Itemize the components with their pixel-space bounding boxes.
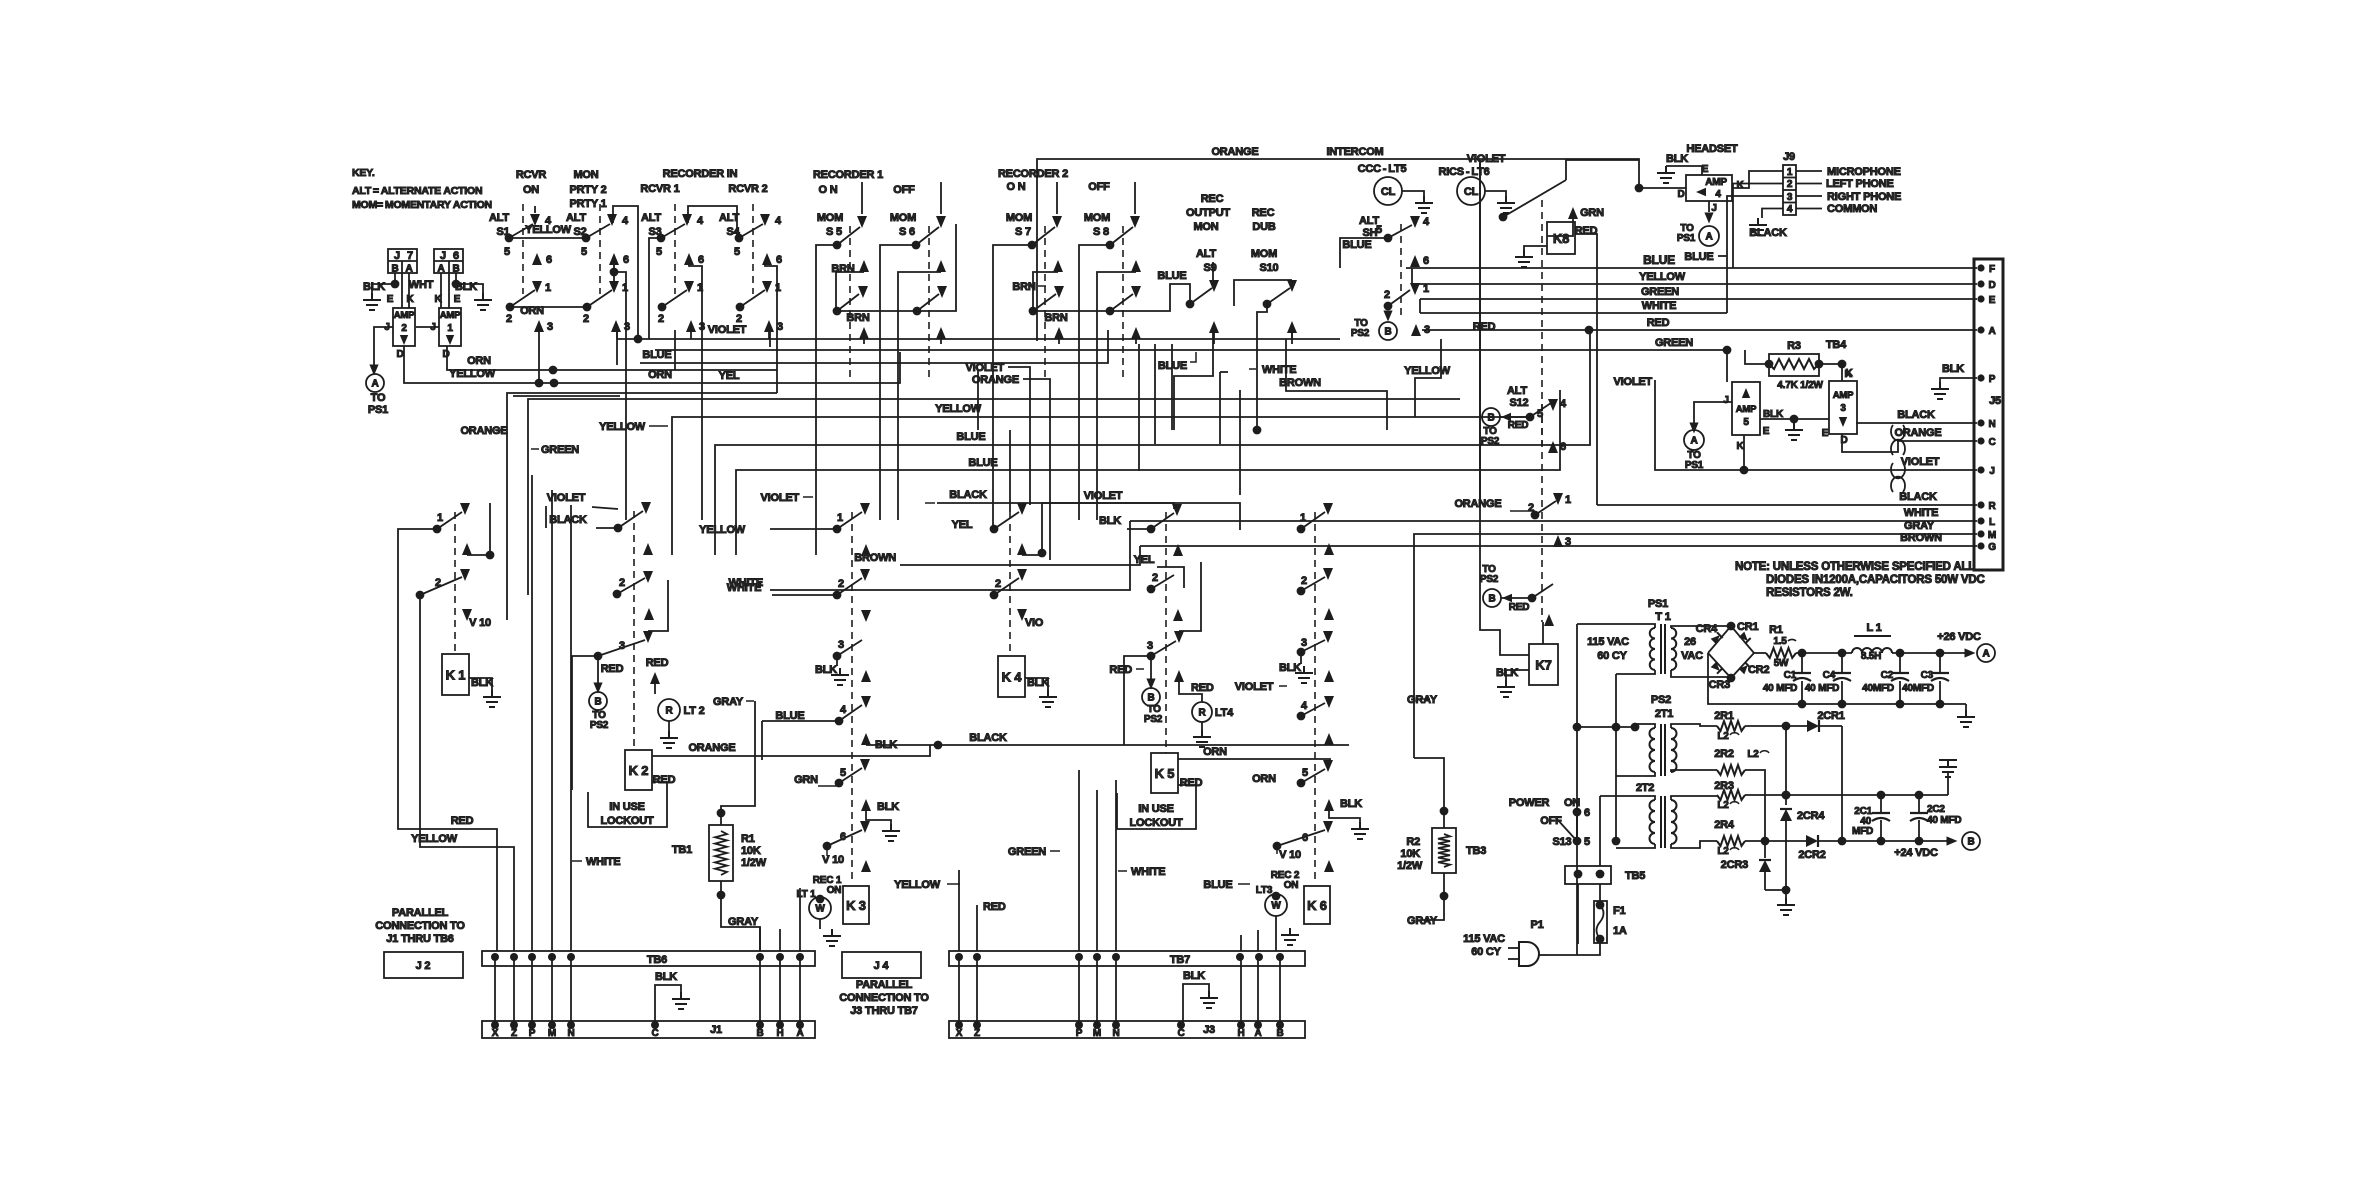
wire S10 arrow stem [1291,333,1293,339]
lamp LT2 [646,657,705,748]
bank K4 contact 2 [990,569,1027,599]
power switch S13 [1509,797,1590,848]
svg-text:RED: RED [1109,664,1132,676]
svg-text:1A: 1A [1613,925,1627,937]
svg-text:8.5H: 8.5H [1861,651,1881,662]
svg-text:F: F [1989,264,1995,275]
svg-text:BRN: BRN [846,312,869,324]
svg-text:S12: S12 [1510,397,1529,409]
header REC OUTPUT MON / REC DUB [1186,193,1276,233]
svg-text:TB4: TB4 [1826,339,1847,351]
svg-text:B: B [1384,327,1391,338]
svg-text:B: B [1488,594,1495,605]
stem S1 [534,206,536,213]
lamp LT3 and relay K6 [1256,870,1330,945]
bank K3 blk gnd [861,799,900,841]
svg-text:A: A [796,1028,803,1039]
switch S3 [641,204,705,333]
switch S1 [489,204,553,333]
svg-text:R: R [665,706,673,717]
svg-text:C4: C4 [1823,670,1836,681]
svg-text:MOM: MOM [1084,212,1110,224]
svg-text:MICROPHONE: MICROPHONE [1827,166,1901,178]
svg-text:AMP: AMP [1736,404,1757,415]
svg-text:R1: R1 [741,833,755,845]
bus wire violet tag [760,430,816,555]
capacitor C2 [1862,649,1909,704]
svg-text:BROWN: BROWN [854,552,896,564]
svg-text:PS1: PS1 [1677,233,1696,244]
svg-text:M: M [548,1028,556,1039]
capacitor 2C1 [1852,795,1890,841]
bank K5 arrow b [1173,609,1183,621]
svg-text:3: 3 [1787,192,1793,203]
svg-text:40 MFD: 40 MFD [1805,683,1839,694]
svg-text:2: 2 [401,323,407,334]
parallel connection text left [375,907,465,945]
svg-text:ORANGE: ORANGE [688,742,735,754]
svg-text:VIOLET: VIOLET [760,492,799,504]
wire K7 to orange loop [1480,160,1529,655]
svg-text:RED: RED [646,657,669,669]
wire violet bus [617,324,1340,343]
svg-text:ALT: ALT [641,212,661,224]
wire AMP1 D orn [447,346,777,374]
svg-text:RED: RED [1647,317,1670,329]
bank K3 arrow e [861,860,871,872]
svg-text:3: 3 [777,321,783,333]
svg-text:RED: RED [983,901,1006,913]
wire black to J5-R [1597,491,1977,505]
svg-text:J5: J5 [1989,395,2001,407]
svg-text:N: N [567,1028,574,1039]
svg-text:CR3: CR3 [1709,679,1730,691]
svg-text:ALT: ALT [566,212,586,224]
svg-text:N: N [1112,1028,1119,1039]
note text [1735,561,1985,599]
svg-text:BLK: BLK [1183,970,1205,982]
bank K2 arrow mid [644,608,654,620]
svg-text:B: B [391,264,398,275]
svg-text:RICS - LT6: RICS - LT6 [1438,166,1489,178]
wire brn S7-S8 [1033,310,1110,312]
bank K3 arrow a [861,544,871,556]
resistor R2 10K [1397,807,1486,901]
bridge diodes [1696,621,1770,691]
svg-text:REC: REC [1201,193,1224,205]
switch S 6 [890,212,946,382]
relay K1 [442,654,501,707]
svg-text:BLK: BLK [655,971,677,983]
wire orn S1-S2 [510,305,587,317]
transformer T1 [1640,624,1731,677]
diode 2CR4 [1780,726,1825,890]
wire S3 arrow6 drop [689,263,702,520]
svg-text:YELLOW: YELLOW [1639,271,1686,283]
svg-text:+26 VDC: +26 VDC [1937,631,1981,643]
svg-text:RED: RED [601,663,624,675]
svg-text:BLACK: BLACK [1749,227,1787,239]
svg-text:2CR4: 2CR4 [1797,810,1825,822]
svg-text:K: K [1736,180,1744,191]
svg-text:BLUE: BLUE [1684,251,1713,263]
wire AMP1 J [416,326,439,328]
svg-text:AMP: AMP [1833,390,1854,401]
svg-text:RED: RED [1508,420,1529,431]
svg-text:REC: REC [1252,207,1275,219]
svg-text:GRN: GRN [1580,207,1604,219]
wire bus 350 green [655,349,1727,351]
svg-text:B: B [594,697,601,708]
relay K5 [1151,753,1203,793]
wire yellow feeder left [411,595,514,951]
resistor R1 1.5 5W [1754,624,1852,669]
J9 pin4 wire to ground [1749,209,1787,240]
svg-text:PARALLEL: PARALLEL [392,907,449,919]
bank K6 contact 6 [1273,821,1333,861]
power supply PS1 T1 labels [1648,598,1671,623]
svg-text:GREEN: GREEN [1655,337,1693,349]
inductor L1 8.5H [1852,622,1892,662]
wire T1 primary top [1577,623,1640,625]
wire +24VDC to terminal B [1894,832,1980,859]
svg-text:GRAY: GRAY [728,916,759,928]
resistor R3 4.7K [1745,339,1852,391]
wire sources jsfeed [1340,238,1420,313]
label VIOLET left bank [546,492,618,528]
svg-text:VIOLET: VIOLET [1235,681,1274,693]
svg-text:3: 3 [619,640,625,652]
svg-text:K 3: K 3 [846,898,866,913]
bank K5 dashed [1165,512,1167,753]
svg-text:R: R [1198,708,1206,719]
bank K3 arrows c [861,670,871,708]
svg-text:2T2: 2T2 [1636,782,1654,794]
bank K4 VIO arrow [1017,609,1044,629]
svg-text:RECORDER IN: RECORDER IN [663,168,738,180]
bank K5 contact 1 [1147,504,1182,533]
left bank verticals to TB6 [532,475,571,951]
svg-text:B: B [1487,413,1494,424]
resistor 2R4 [1714,819,1769,857]
svg-text:H: H [1237,1028,1244,1039]
svg-text:ALT: ALT [1507,385,1527,397]
svg-text:A: A [1705,232,1712,243]
svg-text:1/2W: 1/2W [1397,860,1423,872]
svg-text:1: 1 [545,282,551,294]
svg-text:L2: L2 [1717,731,1729,742]
bus wire j [729,521,1130,590]
svg-text:J1 THRU TB6: J1 THRU TB6 [386,933,454,945]
connector J1 [482,1021,815,1039]
svg-text:5: 5 [1743,417,1749,428]
amplifier AMP 3 [1822,364,1857,446]
svg-text:VIOLET: VIOLET [1901,456,1940,468]
bank K3 contact 4 [762,704,862,760]
wire S3 arrow3 stem [690,332,692,339]
svg-text:WHITE: WHITE [1131,866,1165,878]
svg-text:PS2: PS2 [1144,714,1163,725]
svg-text:K7: K7 [1535,658,1551,673]
terminal block TB5 [1565,841,1645,944]
svg-text:L2: L2 [1747,749,1759,760]
svg-text:CCC - LT5: CCC - LT5 [1358,163,1407,175]
wire brown mid [1279,339,1387,430]
relay K8 [1515,222,1598,505]
bank K2 contact 2 [613,577,645,598]
svg-text:YELLOW: YELLOW [894,879,941,891]
bus wire yellow1 [599,339,1529,555]
svg-text:3: 3 [624,321,630,333]
svg-text:1: 1 [1300,512,1306,524]
header MON PRTY [569,169,606,210]
svg-text:BLUE: BLUE [1203,879,1232,891]
svg-text:C2: C2 [1881,670,1894,681]
bank K6 contact 5 [1252,760,1333,787]
relay K2 [625,750,676,790]
svg-text:TB6: TB6 [647,954,667,966]
svg-text:PS1: PS1 [368,404,388,416]
wire S2 top hook [613,206,638,339]
switch S5 pole2 [831,260,869,324]
svg-text:BLACK: BLACK [969,732,1007,744]
label ORN wire [467,355,672,381]
diode 2CR2 [1765,835,1948,861]
svg-text:YELLOW: YELLOW [599,421,646,433]
svg-text:PRTY 1: PRTY 1 [569,198,606,210]
svg-text:ORANGE: ORANGE [1894,427,1941,439]
svg-text:MON: MON [573,169,598,181]
svg-text:ON: ON [523,184,539,196]
svg-text:A: A [1690,436,1697,447]
svg-text:ORN: ORN [467,355,491,367]
svg-text:M: M [1988,530,1996,541]
bank K3 contact 1 [833,503,870,533]
bank K6 arrows c [1324,670,1334,708]
svg-text:1: 1 [622,282,628,294]
wire S3 dot5 feed [649,238,661,339]
svg-text:LT3: LT3 [1256,885,1273,896]
svg-text:R3: R3 [1787,340,1801,352]
svg-text:BLK: BLK [1666,153,1688,165]
svg-text:RCVR 1: RCVR 1 [640,183,679,195]
svg-text:F1: F1 [1613,905,1626,917]
svg-text:E: E [1763,426,1770,437]
label BLACK left bank [549,514,618,528]
svg-text:BLK: BLK [877,801,899,813]
svg-text:OFF: OFF [1088,181,1110,193]
bank K5 arrow a [1134,544,1184,588]
svg-text:7: 7 [407,250,413,262]
svg-text:GRAY: GRAY [1407,915,1438,927]
svg-text:CL: CL [1381,186,1396,198]
svg-text:C: C [651,1028,658,1039]
svg-text:WHT: WHT [409,279,434,291]
svg-text:WHITE: WHITE [1642,300,1676,312]
svg-text:YELLOW: YELLOW [935,403,982,415]
wire node to AMP4 D [1639,187,1686,189]
header RCVR ON [516,169,547,196]
J9 pin2 wire [1733,184,1783,269]
svg-text:E: E [454,294,461,305]
svg-text:D: D [1677,189,1684,200]
amplifier AMP 2 [384,308,415,360]
wire violet to J5-J [1613,376,1977,474]
svg-text:LEFT PHONE: LEFT PHONE [1826,178,1894,190]
wire to S10 riser [1249,304,1296,434]
connector J3 [949,1021,1305,1039]
svg-text:6: 6 [546,254,552,266]
svg-text:BLUE: BLUE [956,431,985,443]
svg-text:ORANGE: ORANGE [460,425,507,437]
svg-text:D: D [1988,280,1995,291]
bank K3 arrow d [861,733,871,745]
svg-text:RED: RED [653,774,676,786]
wire orn from K5 [1178,746,1330,764]
bank K3 arrow b [861,610,871,622]
svg-text:S 5: S 5 [826,226,842,238]
svg-text:P: P [1989,374,1996,385]
svg-text:RCVR 2: RCVR 2 [728,183,767,195]
svg-text:YELLOW: YELLOW [525,224,572,236]
svg-text:115 VAC: 115 VAC [1587,636,1629,648]
svg-text:A: A [1982,649,1989,660]
svg-text:CONNECTION TO: CONNECTION TO [839,992,929,1004]
transformer 2T2 [1636,782,1717,848]
wire S2 arrow3 riser [616,332,618,365]
svg-text:L2: L2 [1717,846,1729,857]
svg-text:Z: Z [974,1028,980,1039]
bank K3 contact 6 [822,821,870,866]
svg-text:3: 3 [1147,640,1153,652]
svg-text:CR4: CR4 [1696,623,1718,635]
svg-text:AMP: AMP [440,310,461,321]
svg-text:K 2: K 2 [629,763,649,778]
svg-text:BRN: BRN [1044,312,1067,324]
svg-text:MON: MON [1193,221,1218,233]
bus wire blue1 [715,330,1590,555]
switch S8 pole2 [1097,260,1141,430]
svg-text:WHITE: WHITE [729,577,763,589]
svg-text:4: 4 [1787,204,1793,215]
wire S8 pole2 to blue [1110,270,1190,311]
svg-text:BLACK: BLACK [549,514,587,526]
wire S6 feed [880,245,916,430]
bank K6 dashed [1314,512,1316,884]
svg-text:6: 6 [1560,441,1566,453]
wire AMP5 J to terminal A [1689,402,1732,434]
svg-text:HEADSET: HEADSET [1686,143,1738,155]
label blue left of K6 [1203,879,1250,891]
svg-text:DIODES IN1200A,CAPACITORS 50W: DIODES IN1200A,CAPACITORS 50W VDC [1766,574,1985,586]
cable loop marks [1891,425,1905,492]
key legend text [352,167,492,211]
svg-text:5: 5 [1376,224,1382,236]
svg-text:BLACK: BLACK [1899,491,1937,503]
wire red to J5-A [1422,317,1977,334]
label YELLOW wire [449,368,740,382]
svg-text:B: B [756,1028,763,1039]
lamp LT4 [1174,670,1234,747]
bank K6 arrow a [1324,543,1334,555]
svg-text:2CR2: 2CR2 [1798,849,1825,861]
switch S10 [1234,248,1297,344]
svg-text:PS1: PS1 [1685,460,1704,471]
svg-text:VIOLET: VIOLET [1467,153,1506,165]
mom stems S5-S8 [862,182,1135,214]
bank K6 contact 3 [1235,631,1333,693]
wire brown to J5-G [1140,532,1977,546]
bank K3 dashed [851,512,853,884]
bank K6 contact 2 [1297,568,1333,595]
transformer 2T1 [1640,724,1717,776]
wire T1 primary bottom [1616,673,1640,675]
capacitor 2C2 [1910,795,1961,841]
svg-text:GRAY: GRAY [1904,520,1935,532]
svg-text:C: C [1988,437,1995,448]
svg-text:BROWN: BROWN [1279,377,1321,389]
blk ground TB7 [1183,970,1218,1025]
terminal bar TB6 [482,951,815,966]
svg-text:2C2: 2C2 [1927,804,1945,815]
svg-text:MFD: MFD [1852,826,1873,837]
svg-text:VIOLET: VIOLET [708,324,747,336]
vertical drops group 4 [1220,372,1240,495]
capacitor C3 [1902,649,1949,704]
svg-text:RIGHT PHONE: RIGHT PHONE [1827,191,1901,203]
svg-text:VIOLET: VIOLET [965,362,1004,374]
svg-text:S 8: S 8 [1093,226,1109,238]
svg-text:2: 2 [658,313,664,325]
wire orange to J5-C [1842,427,1977,452]
switch S9 [1186,248,1219,344]
svg-text:3: 3 [1565,536,1571,548]
svg-text:ON: ON [827,885,842,896]
arrows under S5-S8 [859,327,1141,344]
terminal bar TB7 [949,951,1305,966]
svg-text:TB3: TB3 [1466,845,1486,857]
wire AMP4 J to terminal A [1704,201,1713,224]
svg-text:A: A [1988,326,1995,337]
svg-text:6: 6 [1584,807,1590,819]
wire S7 feed [993,245,1032,430]
svg-text:2CR3: 2CR3 [1721,859,1748,871]
bus wire violet2 [1042,490,1174,553]
stem S9 [1212,262,1214,280]
svg-text:PS2: PS2 [590,720,609,731]
switch S12 lower contact [1454,493,1571,548]
svg-text:P: P [1076,1028,1083,1039]
svg-text:LOCKOUT: LOCKOUT [601,815,654,827]
label BLK right bank [1099,515,1151,529]
svg-text:5: 5 [1302,767,1308,779]
svg-text:YEL: YEL [952,519,973,531]
wire +26VDC to terminal A [1892,631,1995,662]
ground ps2 bottom [1777,890,1795,915]
svg-text:BLK: BLK [1496,667,1518,679]
terminal A to PS1 [366,374,388,416]
bus wire k [513,395,620,397]
svg-text:K 1: K 1 [446,668,466,683]
bus wire orange vertical [460,393,777,620]
arrow 3 red [1411,321,1496,336]
switch S 8 [1084,212,1140,382]
switch S 7 [1006,212,1062,382]
svg-text:L 1: L 1 [1866,622,1881,634]
svg-text:T 1: T 1 [1655,611,1670,623]
svg-text:MOM: MOM [890,212,916,224]
vertical drops group 2 [978,370,1010,512]
